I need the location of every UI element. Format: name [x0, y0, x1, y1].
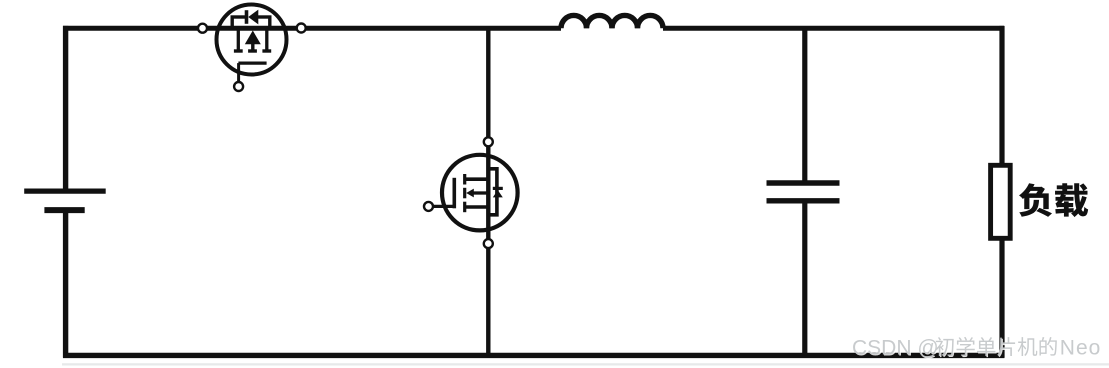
Q1 body diode top wire right segment	[258, 15, 272, 18]
Q1 channel foot middle	[248, 49, 257, 52]
Q1 gate electrode	[238, 61, 266, 64]
Q2 body lead horizontal	[473, 191, 488, 194]
Q1 channel foot right	[262, 49, 271, 52]
Q2 body arrow (points left at middle foot)	[466, 189, 474, 198]
wire right rail lower (from load)	[999, 238, 1004, 357]
Q2 channel foot top	[463, 174, 466, 185]
Q1 gate lead	[237, 63, 240, 82]
Q1 left terminal circle	[198, 24, 207, 33]
wire bottom rail	[63, 353, 1004, 358]
wire left rail (battery branch, upper)	[63, 26, 68, 189]
Q2 gate lead	[430, 205, 454, 208]
Q1 body diode loop right vertical	[268, 17, 271, 28]
svg-text:CSDN @: CSDN @	[852, 336, 939, 359]
capacitor C1 top plate	[767, 180, 840, 185]
Q1 drain lead (left vertical to left foot)	[237, 28, 240, 51]
Q2 bottom terminal circle	[484, 239, 493, 248]
Q1 channel foot left	[234, 49, 243, 52]
N-MOSFET Q2 body circle	[442, 155, 518, 231]
Q1 body arrow (points up to source wire)	[245, 31, 261, 45]
watermark emboss highlight	[853, 338, 1102, 361]
svg-text:Neo: Neo	[1060, 336, 1102, 359]
battery BT1 negative plate	[44, 207, 84, 213]
P-MOSFET Q1 body circle	[217, 5, 287, 75]
Q1 body diode top wire left segment	[231, 15, 247, 18]
wire top rail from battery to P-MOSFET Q1 left terminal	[63, 26, 203, 31]
Q2 body diode cathode bar	[493, 187, 503, 190]
load resistor R1 box	[991, 165, 1011, 238]
Q2 channel foot middle	[463, 188, 466, 199]
inductor L1 arc 2	[587, 15, 613, 28]
load label text 负载	[1019, 183, 1052, 217]
Q2 source lead (horizontal to bottom foot)	[465, 205, 489, 209]
Q2 top terminal circle	[484, 137, 493, 146]
wire middle branch (Q2 drain-source column)	[486, 28, 490, 355]
Q1 gate terminal circle	[234, 82, 243, 91]
Q2 body diode loop	[488, 169, 497, 215]
Q1 source lead (right vertical to right foot)	[265, 28, 268, 51]
Q2 drain lead (horizontal to top foot)	[465, 177, 489, 181]
wire left rail (battery branch, lower)	[63, 213, 68, 358]
wire capacitor branch upper	[802, 28, 807, 180]
Q1 body diode loop left vertical	[230, 17, 233, 28]
wire top rail from inductor to top-right corner	[663, 26, 1004, 31]
Q1 body arrow stem	[251, 44, 254, 51]
wire capacitor branch lower	[802, 203, 807, 355]
Q2 body diode triangle (points up)	[493, 190, 503, 197]
Q2 gate terminal circle	[424, 202, 433, 211]
inductor L1 arc 4	[638, 15, 664, 28]
Q1 right terminal circle	[297, 24, 306, 33]
capacitor C1 bottom plate	[767, 198, 840, 203]
watermark bottom band	[62, 363, 1109, 365]
watermark text CSDN @初学单片机的Neo	[852, 336, 1101, 359]
inductor L1 arc 3	[612, 15, 638, 28]
inductor L1 arc 1	[561, 15, 587, 28]
Q1 body diode triangle (points left)	[248, 10, 258, 25]
Q1 body diode cathode bar	[245, 10, 249, 24]
Q2 channel foot bottom	[463, 202, 466, 213]
Q2 gate electrode	[452, 178, 456, 209]
wire top rail through Q1 to inductor	[203, 26, 562, 31]
wire right rail upper (to load)	[999, 26, 1004, 165]
battery BT1 positive plate	[24, 189, 106, 194]
